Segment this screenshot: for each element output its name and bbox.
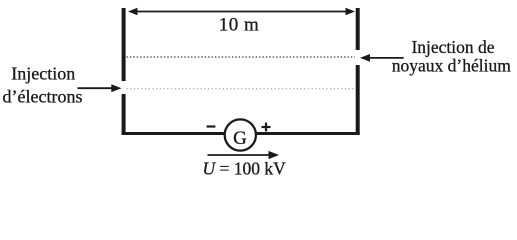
plate left (electrode A) lower segment (122, 94, 126, 135)
generator G circle (225, 119, 256, 150)
wire bottom connecting plates (122, 132, 360, 135)
svg-text:10 m: 10 m (219, 15, 260, 36)
voltage arrow U (208, 151, 280, 159)
plate right (electrode B) upper segment (356, 8, 360, 50)
plate right (electrode B) lower segment (356, 65, 360, 134)
svg-text:Injection de: Injection de (411, 37, 494, 57)
svg-text:Injection: Injection (11, 64, 75, 84)
svg-text:d’électrons: d’électrons (3, 86, 83, 106)
beam path helium (upper dotted line) (127, 56, 356, 58)
dimension arrow 10 m (double headed) (128, 8, 355, 16)
injection arrow helium nuclei (right) (360, 54, 404, 62)
plate left (electrode A) upper segment (122, 8, 126, 81)
injection arrow electrons (left) (78, 84, 122, 92)
svg-text:U = 100 kV: U = 100 kV (203, 159, 287, 179)
polarity minus sign (207, 125, 216, 127)
polarity plus sign (262, 123, 271, 132)
beam path electrons (lower dotted line) (127, 88, 356, 90)
svg-text:noyaux d’hélium: noyaux d’hélium (392, 56, 511, 76)
label Injection d'electrons (3, 64, 83, 107)
svg-text:G: G (233, 128, 247, 149)
label Injection de noyaux d'helium (392, 37, 511, 76)
